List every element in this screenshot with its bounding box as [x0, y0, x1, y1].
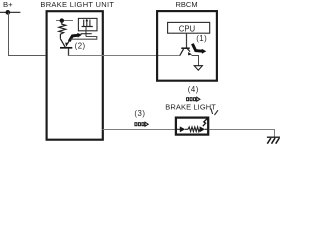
- lamp right arrow: [200, 126, 205, 132]
- junction dot on B+ rail: [5, 10, 10, 15]
- svg-text:(1): (1): [196, 34, 207, 43]
- lamp out lead: [205, 128, 207, 130]
- transistor Q2 emitter diagonal with arrowhead: [68, 39, 71, 43]
- transistor Q2 output drop: [68, 48, 70, 56]
- transistor Q1 base bar: [181, 47, 189, 49]
- ground hatch strokes: [267, 138, 271, 144]
- wire CPU to transistor Q1: [186, 33, 188, 48]
- box RBCM: [157, 11, 217, 81]
- transistor Q1 base diagonal: [180, 49, 184, 56]
- IC box U1 (driver): [78, 18, 97, 30]
- wire Q2 emitter to RBCM transistor base: [69, 55, 180, 57]
- lamp glow zigzag arrow: [203, 119, 207, 126]
- wire from B+ down and right to brake light unit: [9, 12, 46, 55]
- svg-text:BRAKE LIGHT UNIT: BRAKE LIGHT UNIT: [40, 0, 114, 9]
- IC icon wide bar: [82, 26, 93, 28]
- transistor Q2 base bar: [60, 47, 72, 49]
- svg-text:(4): (4): [188, 85, 199, 94]
- connector symbol (4): [187, 97, 200, 101]
- wire Q1 emitter to internal ground arrow: [192, 56, 199, 66]
- IC icon up arrow: [86, 21, 88, 26]
- wire lamp to ground: [209, 130, 275, 138]
- wire internal top rail: [56, 20, 73, 22]
- box CPU: [168, 22, 210, 33]
- svg-text:B+: B+: [3, 0, 13, 9]
- box BRAKE LIGHT UNIT: [47, 11, 103, 140]
- transistor Q1 emitter diagonal with arrowhead: [188, 49, 191, 52]
- svg-text:CPU: CPU: [179, 24, 196, 33]
- transistor Q2 collector diagonal: [60, 39, 65, 48]
- lamp lead-in: [177, 128, 180, 130]
- svg-text:(3): (3): [134, 109, 145, 118]
- svg-text:(2): (2): [75, 42, 86, 51]
- lamp box BRAKE LIGHT: [176, 118, 208, 135]
- wire brake light unit to lamp: [102, 129, 176, 131]
- thick control arrow at Q1: [192, 44, 202, 52]
- node B+ rail: [0, 11, 20, 13]
- light ray 1: [211, 109, 213, 115]
- ground bar: [267, 136, 280, 138]
- lamp mid lead: [185, 128, 188, 130]
- internal ground arrow (hollow triangle): [194, 66, 202, 71]
- svg-text:RBCM: RBCM: [176, 0, 198, 9]
- junction dot top rail: [60, 18, 64, 22]
- connector symbol (3): [135, 122, 148, 126]
- IC external T bar: [81, 33, 92, 35]
- IC icon right bar: [89, 20, 91, 27]
- thick control arrow at Q2: [69, 35, 77, 41]
- resistor R (brake light unit): [59, 21, 66, 39]
- IC icon left bar: [83, 20, 85, 27]
- svg-text:BRAKE LIGHT: BRAKE LIGHT: [165, 102, 216, 111]
- wire from IC stem to Q2: [70, 37, 96, 40]
- IC output stem through box bottom: [85, 27, 87, 37]
- lamp filament zigzag: [188, 127, 200, 132]
- lamp left arrow: [180, 126, 185, 132]
- light ray 2: [215, 110, 219, 115]
